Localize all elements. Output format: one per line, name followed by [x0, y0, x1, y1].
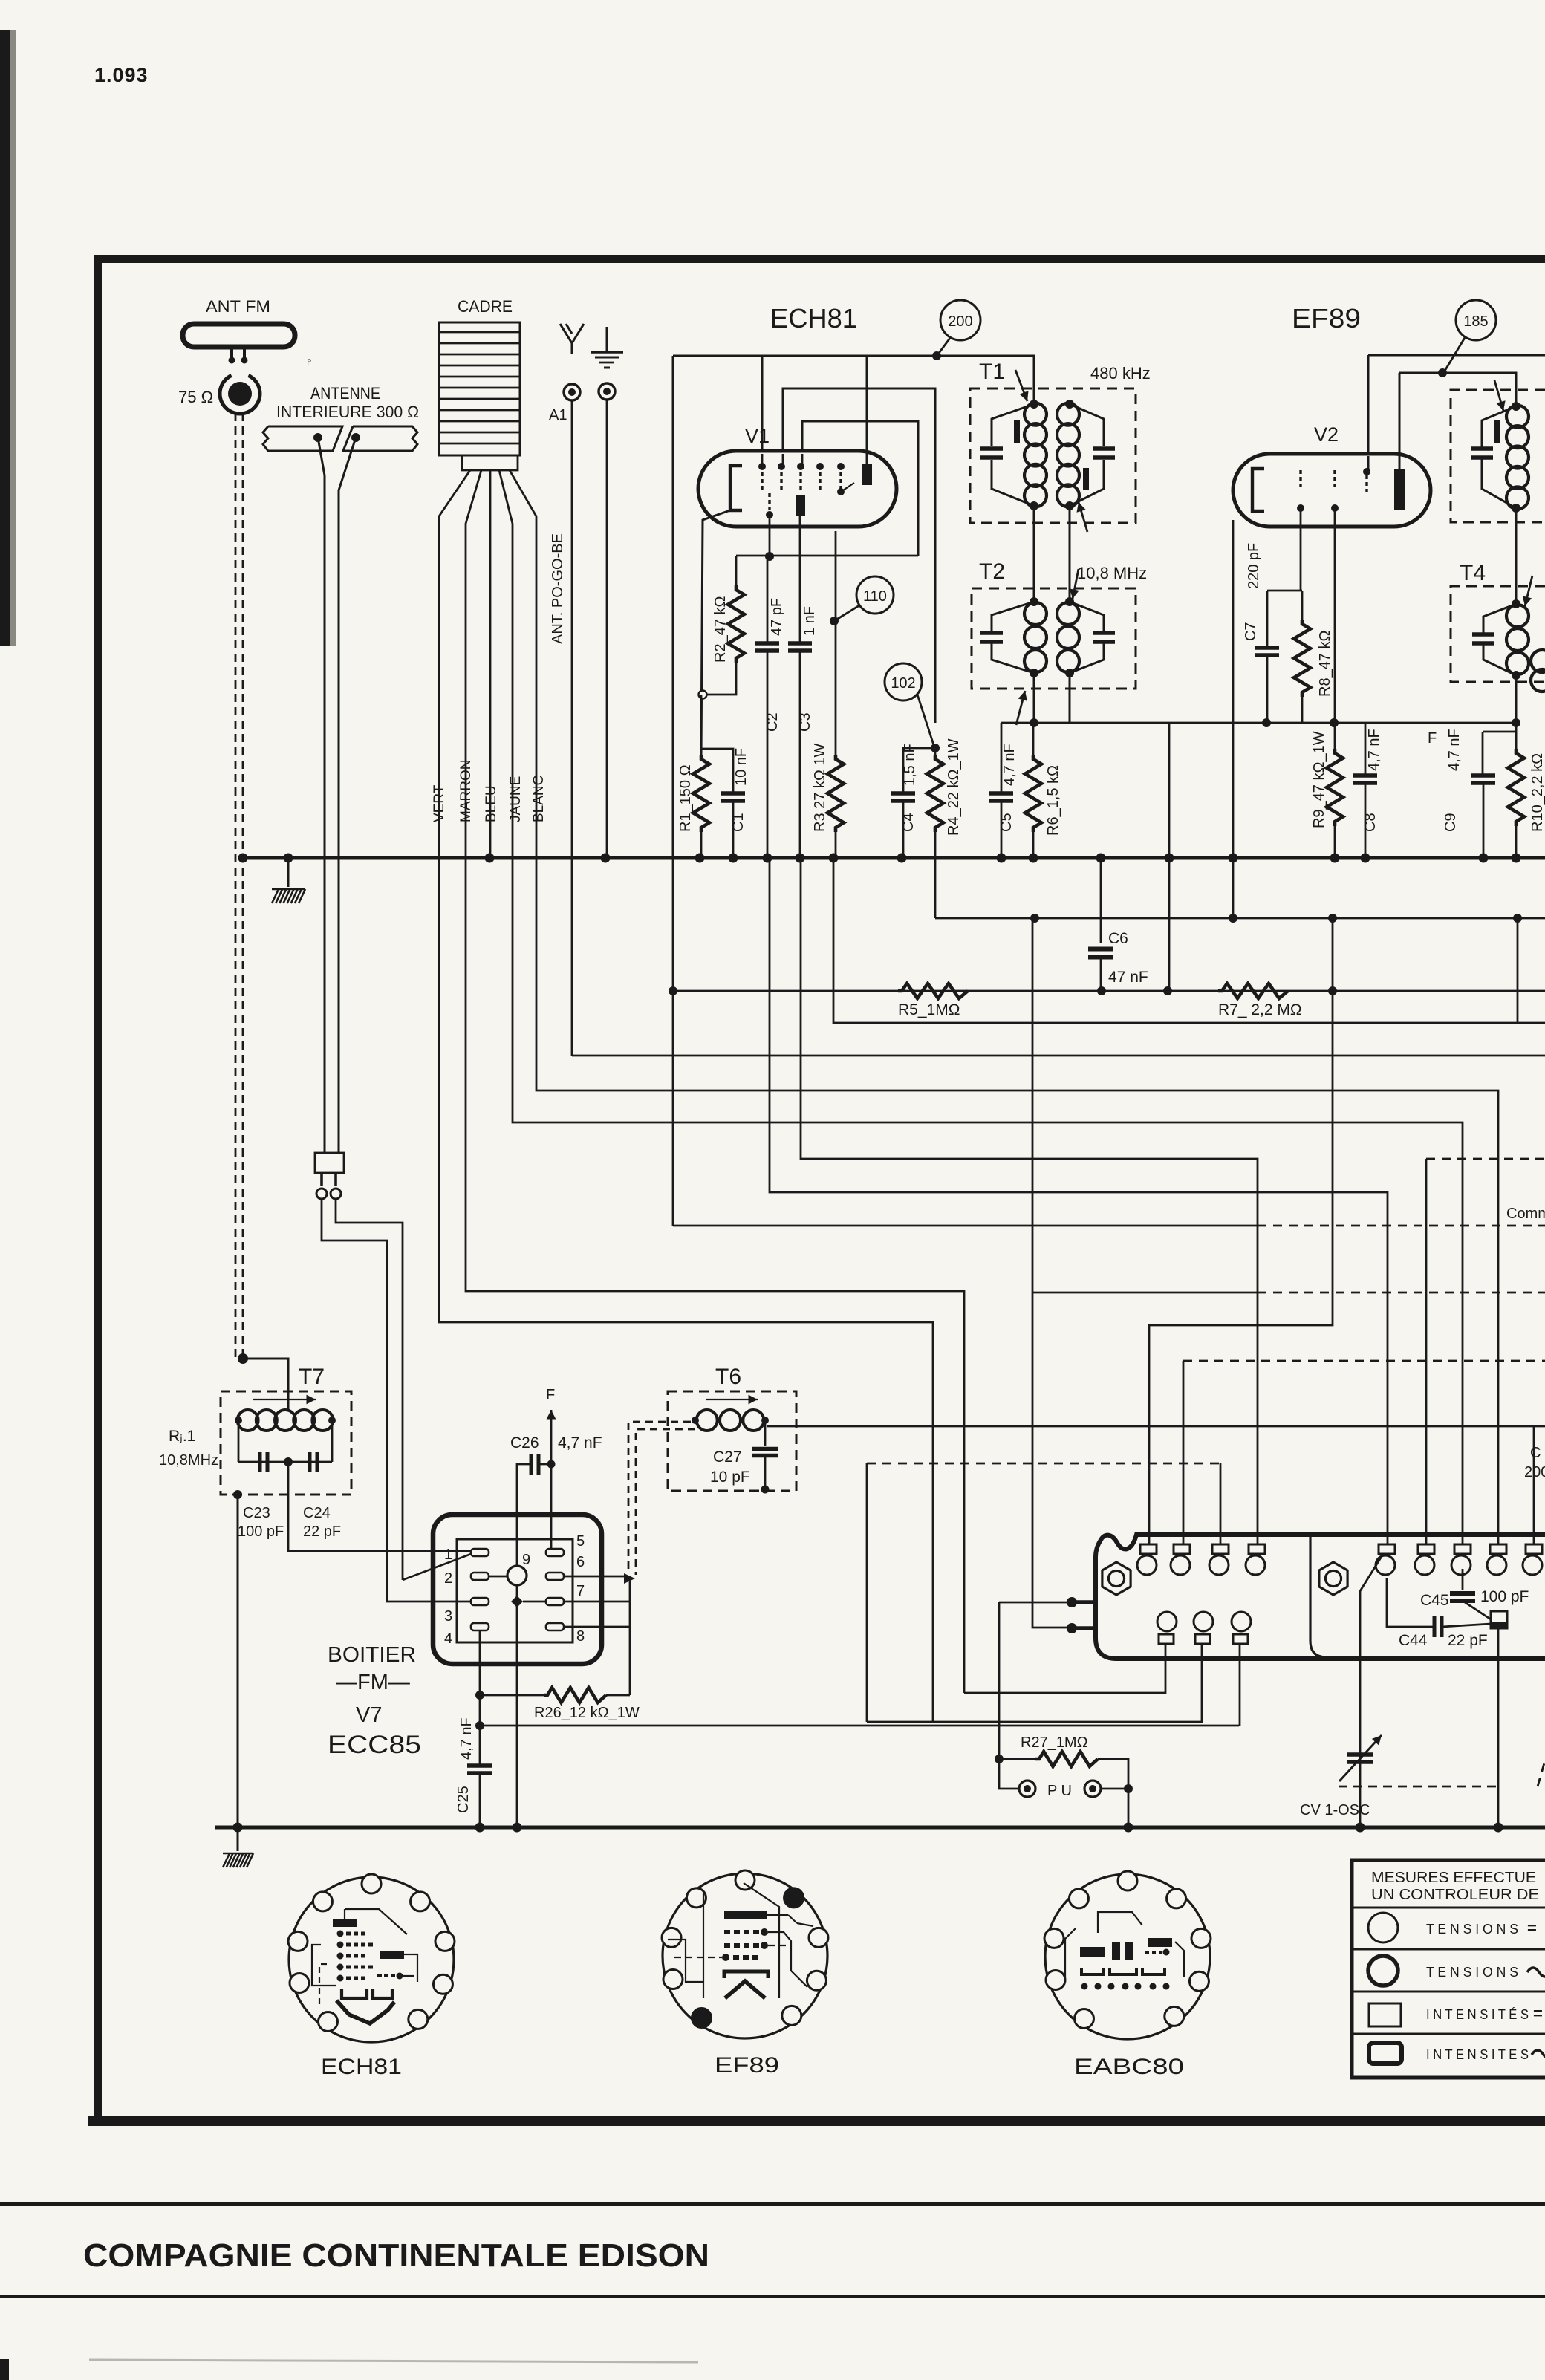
svg-text:10 nF: 10 nF — [733, 748, 749, 786]
dashed rail y1740 — [1032, 1292, 1258, 1294]
capacitor C6 — [1100, 858, 1102, 943]
svg-text:1,5 nF: 1,5 nF — [902, 744, 918, 786]
V2 anode bar — [1394, 469, 1405, 510]
svg-text:ECH81: ECH81 — [321, 2055, 402, 2079]
svg-text:1 nF: 1 nF — [801, 606, 818, 636]
svg-text:8: 8 — [576, 1628, 585, 1645]
svg-text:22 pF: 22 pF — [1448, 1632, 1488, 1649]
T2 output drops — [1033, 673, 1035, 723]
bus junction dots — [238, 854, 248, 863]
V1 screen bar — [796, 495, 805, 516]
pin2 link to 9 — [489, 1576, 507, 1578]
svg-text:V7: V7 — [356, 1703, 382, 1727]
T1 primary core — [1014, 420, 1020, 443]
svg-text:4,7 nF: 4,7 nF — [558, 1434, 602, 1451]
svg-text:INTERIEURE 300 Ω: INTERIEURE 300 Ω — [276, 403, 419, 421]
wire C5 feed — [1001, 723, 1003, 793]
CADRE fan wires — [439, 470, 470, 858]
T4 coil — [1506, 605, 1529, 627]
svg-text:T4: T4 — [1460, 561, 1486, 585]
legend row intensites ac — [1369, 2043, 1402, 2064]
T2 primary cap — [980, 631, 1003, 635]
svg-text:BLANC: BLANC — [531, 776, 547, 822]
wire 200V top rail — [673, 356, 1034, 404]
T2 secondary coil — [1057, 602, 1079, 625]
svg-text:C7: C7 — [1243, 622, 1259, 641]
svg-text:200: 200 — [948, 313, 972, 330]
CADRE coil block — [439, 322, 520, 455]
svg-text:A1: A1 — [549, 407, 567, 423]
wire R2 feed / grid header — [736, 555, 918, 557]
CV1 variable cap — [1347, 1752, 1373, 1757]
V2 k drop — [1334, 508, 1336, 749]
svg-text:VERT: VERT — [432, 784, 447, 822]
svg-text:=: = — [1533, 2004, 1543, 2023]
V1 pin5 link — [837, 488, 845, 495]
FM inner frame — [457, 1539, 573, 1642]
svg-text:CADRE: CADRE — [458, 297, 513, 316]
wire C2 down — [767, 556, 769, 643]
grid line / AGC rail — [673, 990, 1545, 992]
svg-text:2: 2 — [444, 1570, 452, 1587]
T1 secondary arrow — [1079, 502, 1087, 532]
transformer T7 box — [221, 1391, 351, 1495]
wire R2 bottom — [707, 663, 736, 695]
test point 185 — [1456, 300, 1496, 340]
hex nut 2 — [1319, 1562, 1347, 1595]
wire C3 column — [799, 516, 801, 643]
legend row intensites dc — [1369, 2003, 1401, 2026]
resistor R5 — [898, 983, 968, 998]
T3 coil — [1506, 406, 1529, 428]
V2 cathode — [1252, 469, 1264, 511]
dashed stair y1832 — [1183, 1360, 1545, 1362]
frame top border — [94, 255, 1545, 263]
svg-text:100 pF: 100 pF — [238, 1524, 284, 1540]
wire C4 R4 header — [903, 748, 935, 793]
svg-text:R1_150 Ω: R1_150 Ω — [677, 764, 694, 832]
V1 anode entry stub — [866, 453, 868, 465]
svg-text:BLEU: BLEU — [484, 785, 499, 822]
T7 left drop to bus — [233, 1490, 242, 1499]
capacitor C8 — [1365, 723, 1367, 774]
svg-text:CV 1-OSC: CV 1-OSC — [1300, 1802, 1370, 1818]
svg-text:R10_2,2 kΩ: R10_2,2 kΩ — [1529, 753, 1545, 832]
V1 anode bar — [862, 464, 872, 485]
S1 bottom wires — [964, 1644, 1165, 1693]
svg-text:10 pF: 10 pF — [710, 1469, 750, 1486]
svg-text:R9_47 kΩ_1W: R9_47 kΩ_1W — [1311, 731, 1327, 828]
C45 — [1462, 1569, 1464, 1590]
T1 secondary cap — [1093, 446, 1115, 451]
svg-text:MESURES EFFECTUE: MESURES EFFECTUE — [1371, 1870, 1536, 1886]
dashed OSC link — [1339, 1786, 1497, 1788]
pin6 link to T6 dashes — [564, 1576, 628, 1578]
T1 primary cap — [980, 446, 1003, 451]
T7 link into pin1 node — [287, 1495, 403, 1580]
svg-text:R6_1,5 kΩ: R6_1,5 kΩ — [1045, 765, 1061, 836]
svg-text:4,7 nF: 4,7 nF — [1001, 744, 1018, 786]
staircase rail A y1377 — [833, 858, 1545, 1023]
stair MARRON y1738 — [466, 858, 964, 1693]
svg-text:R5_1MΩ: R5_1MΩ — [898, 1001, 960, 1018]
svg-text:T7: T7 — [299, 1365, 325, 1389]
Comm rail y1650 — [672, 858, 674, 1226]
svg-text:T2: T2 — [979, 559, 1005, 584]
T1 tuning arrow — [1015, 370, 1027, 401]
svg-text:100 pF: 100 pF — [1480, 1588, 1529, 1605]
ground symbol top — [606, 327, 608, 352]
long AM line from C25 node — [480, 1725, 1239, 1727]
staircase rail C y1468 — [536, 858, 1498, 1544]
resistor R3 — [835, 531, 837, 755]
antenna wires into FM box — [324, 1152, 325, 1154]
wire C1 feed — [701, 749, 733, 793]
stair VERT y1780 — [439, 858, 933, 1722]
switch stubs left — [1070, 1600, 1096, 1604]
ground connector wire — [606, 400, 608, 858]
svg-text:C25: C25 — [455, 1786, 472, 1813]
switch section divider — [1310, 1536, 1327, 1657]
bottom chassis bus — [215, 1826, 1545, 1830]
wire left tall drop — [672, 356, 674, 858]
capacitor C4 — [891, 791, 915, 796]
resistor R9 — [1327, 749, 1343, 826]
tube V1 — [698, 451, 897, 527]
V1 cathode — [730, 466, 742, 510]
resistor R10 — [1508, 749, 1524, 826]
CADRE base — [462, 455, 518, 470]
V1 pins top row — [758, 463, 766, 470]
FM box V7 — [433, 1515, 602, 1664]
capacitor C3 — [788, 641, 812, 646]
svg-text:102: 102 — [891, 675, 915, 692]
wire k2 return rail — [934, 858, 937, 918]
T3 cap — [1471, 446, 1493, 451]
FM center pin 9 — [507, 1566, 527, 1585]
wire V1 anode — [866, 356, 868, 464]
svg-text:R3 27 kΩ 1W: R3 27 kΩ 1W — [812, 743, 828, 832]
T1 primary frame — [992, 404, 1034, 446]
svg-text:ECH81: ECH81 — [770, 303, 857, 334]
svg-text:C23: C23 — [243, 1505, 270, 1521]
svg-text:F: F — [546, 1387, 555, 1403]
pin7 link right — [564, 1601, 630, 1603]
tube socket EF89 — [663, 1873, 827, 2038]
svg-text:4,7 nF: 4,7 nF — [458, 1717, 475, 1760]
svg-text:1.093: 1.093 — [94, 64, 149, 86]
capacitor C27 — [764, 1420, 767, 1446]
switch S1 top contacts — [1140, 1544, 1157, 1554]
svg-text:ANTENNE: ANTENNE — [310, 384, 380, 403]
C7 R8 header — [1267, 590, 1302, 592]
svg-text:C45: C45 — [1420, 1592, 1449, 1609]
svg-text:R7_ 2,2 MΩ: R7_ 2,2 MΩ — [1218, 1001, 1302, 1018]
svg-text:C26: C26 — [510, 1434, 539, 1451]
FM Y antenna — [560, 324, 572, 354]
svg-text:I N T E N S I T É S: I N T E N S I T É S — [1426, 2007, 1529, 2022]
resistor R26 — [480, 1694, 544, 1697]
svg-text:C24: C24 — [303, 1505, 331, 1521]
A1 connector — [564, 384, 580, 400]
svg-text:9: 9 — [522, 1552, 530, 1568]
scan edge strip — [0, 30, 10, 646]
T2 tuning arrow — [1016, 691, 1025, 725]
wire k2 drop x1390 — [1032, 918, 1070, 1628]
svg-text:5: 5 — [576, 1533, 585, 1550]
V2 entry stubs — [1367, 456, 1370, 469]
svg-text:47 nF: 47 nF — [1108, 969, 1148, 986]
legend row tensions dc — [1368, 1913, 1398, 1942]
T2 secondary arrow — [1073, 569, 1079, 599]
dashed stair y1970 — [867, 1463, 1220, 1465]
T2 secondary cap — [1093, 631, 1115, 635]
svg-text:C27: C27 — [713, 1449, 742, 1466]
svg-text:EABC80: EABC80 — [1074, 2055, 1184, 2079]
ANT FM dipole — [183, 324, 295, 347]
svg-text:10,8 MHz: 10,8 MHz — [1077, 564, 1147, 582]
switch-side drop to R26 — [629, 1581, 631, 1695]
wire EF89 anode rail — [1368, 354, 1545, 357]
V1 heater tail — [701, 510, 730, 755]
wire V1 g2 loop — [783, 388, 935, 723]
T7 coil — [238, 1410, 258, 1431]
capacitor C7 — [1266, 591, 1269, 646]
C44 — [1433, 1616, 1437, 1637]
FM pin slots right — [546, 1549, 564, 1556]
frame bottom border — [88, 2116, 1545, 2126]
capacitor C26 — [530, 1454, 533, 1475]
T1 secondary coil — [1057, 403, 1079, 426]
svg-text:UN CONTROLEUR DE: UN CONTROLEUR DE — [1371, 1887, 1539, 1903]
svg-text:R26_12 kΩ_1W: R26_12 kΩ_1W — [534, 1705, 640, 1721]
svg-text:C: C — [1530, 1445, 1541, 1461]
ground under bus — [287, 858, 290, 887]
svg-text:480 kHz: 480 kHz — [1090, 364, 1151, 383]
C44 link wire — [1387, 1578, 1434, 1627]
tube socket ECH81 — [289, 1877, 454, 2042]
svg-text:Comm: Comm — [1506, 1206, 1545, 1222]
T1 secondary core — [1083, 468, 1089, 490]
tube V2 — [1233, 454, 1431, 527]
separator rule above title — [0, 2202, 1545, 2206]
svg-text:C6: C6 — [1108, 930, 1128, 947]
T1 primary coil — [1024, 403, 1047, 426]
hex nut 1 — [1102, 1562, 1131, 1595]
svg-text:T E N S I O N S: T E N S I O N S — [1426, 1922, 1518, 1937]
svg-text:3: 3 — [444, 1608, 452, 1625]
staircase rail E y1560 — [801, 858, 1258, 1544]
svg-text:EF89: EF89 — [1292, 303, 1361, 334]
svg-text:C44: C44 — [1399, 1632, 1428, 1649]
svg-text:10,8MHz: 10,8MHz — [159, 1452, 218, 1469]
V1 second row pin — [768, 493, 770, 497]
test point 110 — [856, 576, 894, 614]
legend box MESURES — [1352, 1860, 1545, 2078]
CV1 pick wire — [1360, 1554, 1383, 1827]
svg-text:ECC85: ECC85 — [328, 1731, 421, 1759]
T4 secondary coil edge — [1531, 650, 1545, 672]
capacitor C2 — [755, 641, 779, 646]
square drop — [1497, 1628, 1500, 1827]
A1 wire down — [571, 400, 573, 1056]
wire EF89 screen rail — [1399, 373, 1516, 406]
V2 cath drop x1574 — [1168, 723, 1171, 991]
staircase rail B y1421 — [572, 1055, 1545, 1057]
svg-text:R27_1MΩ: R27_1MΩ — [1021, 1734, 1088, 1751]
svg-text:COMPAGNIE CONTINENTALE EDISO: COMPAGNIE CONTINENTALE EDISON — [83, 2237, 709, 2274]
capacitor C1 — [721, 791, 745, 796]
T7 entry arrow — [238, 1353, 248, 1364]
capacitor C25 — [467, 1763, 492, 1768]
T4 cap — [1472, 632, 1494, 637]
pin4 drop — [479, 1630, 481, 1766]
resistor R4 — [934, 748, 937, 755]
wire V1 k2 down — [769, 517, 771, 556]
resistor R8 — [1301, 591, 1304, 620]
wire heater stair y1605 — [770, 858, 1388, 1544]
svg-text:ANT FM: ANT FM — [206, 297, 270, 316]
ribbon wires down — [318, 438, 325, 1153]
PU jacks — [1019, 1781, 1035, 1797]
capacitor C9 — [1471, 773, 1495, 778]
resistor R6 — [1032, 723, 1035, 755]
75 ohm coax connector — [220, 376, 260, 414]
main chassis bus — [243, 856, 1545, 860]
svg-text:4: 4 — [444, 1630, 452, 1647]
svg-text:75 Ω: 75 Ω — [178, 388, 213, 406]
T6 dashed link to pins — [628, 1422, 691, 1572]
FM pin slots left — [471, 1549, 489, 1556]
wire C2 C3 to bus — [767, 651, 769, 858]
svg-text:R2_47 kΩ: R2_47 kΩ — [712, 596, 729, 663]
T3 arrow — [1494, 380, 1503, 411]
svg-text:I N T E N S I T E S: I N T E N S I T E S — [1426, 2047, 1529, 2062]
T3 core — [1494, 420, 1500, 443]
T4 arrow — [1525, 576, 1532, 606]
svg-text:—FM—: —FM— — [336, 1671, 410, 1694]
svg-text:4,7 nF: 4,7 nF — [1446, 729, 1463, 771]
svg-text:47 pF: 47 pF — [769, 598, 785, 636]
R5R7 drop to S1 — [1149, 918, 1333, 1544]
svg-text:=: = — [1527, 1919, 1537, 1937]
resistor R7 — [1218, 983, 1288, 998]
pin1 diagonal — [403, 1554, 471, 1580]
svg-text:7: 7 — [576, 1583, 585, 1599]
test point 102 — [885, 663, 922, 700]
V2 cathode drop — [1232, 520, 1235, 918]
bottom-left page mark — [0, 2359, 9, 2380]
svg-text:P U: P U — [1047, 1783, 1072, 1799]
transformer T2 box — [972, 588, 1136, 689]
svg-text:22 pF: 22 pF — [303, 1524, 341, 1540]
svg-text:C9: C9 — [1442, 813, 1459, 832]
T1-T2 links — [1033, 506, 1035, 602]
T7 sec to pin1 — [288, 1466, 471, 1551]
svg-text:185: 185 — [1463, 313, 1488, 330]
svg-text:V2: V2 — [1314, 423, 1339, 446]
V2 pins — [1299, 470, 1301, 474]
svg-text:T1: T1 — [979, 360, 1005, 384]
grid return rail y973 — [1001, 722, 1516, 724]
pin8 link to R26 — [564, 1626, 630, 1628]
transformer T1 box — [970, 388, 1136, 523]
wire V1 pin1 riser — [761, 356, 764, 466]
capacitor C5 — [989, 791, 1013, 796]
test point 200 — [940, 300, 980, 340]
svg-text:R4_22 kΩ_1W: R4_22 kΩ_1W — [946, 738, 962, 836]
svg-text:EF89: EF89 — [715, 2053, 779, 2078]
antenne ribbon right — [343, 426, 417, 451]
resistor R1 — [700, 695, 703, 755]
wire F to pin5 — [550, 1464, 553, 1552]
svg-text:4,7 nF: 4,7 nF — [1366, 729, 1382, 771]
resistor R2 — [728, 585, 744, 663]
V2 g2 drop — [1300, 508, 1302, 591]
staircase rail D y1511 — [513, 858, 1463, 1544]
svg-text:6: 6 — [576, 1554, 585, 1570]
svg-text:♇: ♇ — [305, 356, 313, 368]
svg-text:F: F — [1428, 730, 1437, 747]
svg-text:ANT. PO-GO-BE: ANT. PO-GO-BE — [550, 533, 566, 644]
trimmer square — [1491, 1611, 1507, 1628]
V1 pin riser stubs — [761, 454, 764, 464]
S2 contact 5 riser — [1533, 1426, 1535, 1544]
ANT FM stubs — [230, 347, 233, 359]
coax dashed pair down to T7 — [235, 413, 237, 1359]
T2 primary coil — [1024, 602, 1047, 625]
switch S1 bottom contacts — [1157, 1612, 1177, 1631]
right dashed rail y1560 — [1426, 1158, 1545, 1160]
wire 2043 short drop — [1517, 918, 1519, 1023]
T4 output drop — [1515, 675, 1518, 749]
T6 line y1920 — [767, 1425, 1545, 1428]
antenne ribbon left — [263, 426, 342, 451]
C45-square diagonal — [1463, 1601, 1491, 1619]
separator rule below title — [0, 2295, 1545, 2298]
wire V1 g3 loop — [802, 421, 918, 556]
T6 coil — [697, 1410, 718, 1431]
svg-text:110: 110 — [863, 588, 887, 605]
heater junction diamond — [511, 1596, 523, 1607]
svg-text:T6: T6 — [715, 1365, 741, 1389]
switch body — [1096, 1535, 1545, 1659]
legend row tensions ac — [1368, 1956, 1398, 1986]
pin7 link to diamond — [523, 1601, 546, 1603]
T7 frame — [238, 1420, 240, 1462]
bottom ground — [237, 1827, 239, 1851]
capacitor C23 — [258, 1452, 262, 1472]
svg-text:R8_47 kΩ: R8_47 kΩ — [1317, 631, 1333, 697]
C26 return to bus — [517, 1464, 530, 1827]
transformer T6 box — [668, 1391, 796, 1491]
svg-text:BOITIER: BOITIER — [328, 1643, 416, 1667]
svg-text:V1: V1 — [745, 425, 770, 447]
tube socket EABC80 — [1045, 1874, 1210, 2039]
svg-text:JAUNE: JAUNE — [508, 776, 524, 822]
svg-text:MARRON: MARRON — [458, 760, 474, 822]
ribbon terminal dots — [313, 433, 322, 442]
ground connector — [599, 383, 615, 400]
svg-text:220 pF: 220 pF — [1246, 543, 1262, 589]
transformer T3 box — [1451, 390, 1545, 522]
svg-text:Rⱼ.1: Rⱼ.1 — [169, 1428, 195, 1445]
capacitor C24 — [308, 1452, 312, 1472]
T3-T4 link — [1515, 508, 1518, 604]
frame left border — [94, 255, 102, 2124]
svg-text:T E N S I O N S: T E N S I O N S — [1426, 1965, 1518, 1980]
switch S2 top contacts — [1379, 1544, 1395, 1554]
